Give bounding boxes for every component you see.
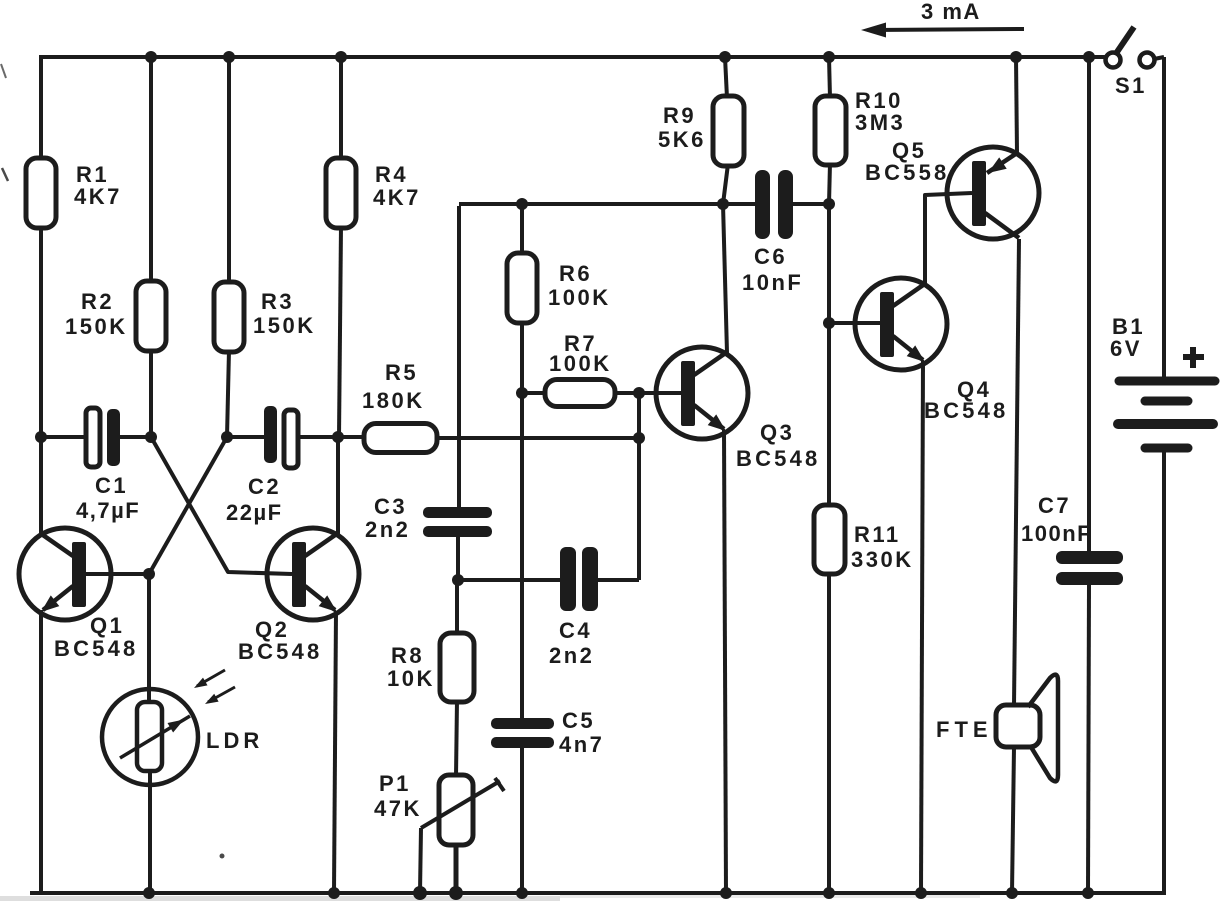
node junction top rail / R3 [223, 51, 235, 63]
svg-text:C4: C4 [559, 618, 592, 643]
svg-text:10K: 10K [387, 666, 435, 691]
wire R11 bottom lead [827, 572, 831, 893]
wire speaker to ground [1012, 747, 1014, 893]
svg-text:Q1: Q1 [90, 613, 124, 638]
svg-text:4n7: 4n7 [559, 732, 604, 757]
node junction top rail / Q5 emitter [1010, 51, 1022, 63]
transistor Q1 BC548 [19, 528, 111, 620]
wire left rail upper segment [39, 55, 43, 160]
svg-text:47K: 47K [374, 796, 422, 821]
node junction P1 wiper / ground [413, 886, 427, 900]
svg-text:2n2: 2n2 [365, 517, 410, 542]
svg-text:R2: R2 [81, 289, 114, 314]
wire C3 node to C4 [458, 578, 561, 582]
wire R7 right lead [614, 391, 639, 395]
resistor R3 [214, 282, 244, 352]
resistor R9 [713, 96, 744, 166]
node junction R7 / Q3 base [633, 387, 645, 399]
wire R8 top lead [455, 580, 459, 635]
svg-text:C1: C1 [95, 473, 128, 498]
svg-text:R3: R3 [261, 289, 294, 314]
resistor R11 [814, 505, 845, 574]
wire R9 top lead [725, 57, 727, 98]
LDR light arrow 1 [194, 670, 225, 688]
transistor Q3 BC548 [656, 347, 748, 439]
node junction Q4 emitter / ground rail [915, 887, 927, 899]
node junction top rail / R4 [335, 51, 347, 63]
wire left rail R1 to node [39, 226, 43, 437]
node junction Q2 emitter / ground rail [328, 887, 340, 899]
node junction top rail / R10 [823, 51, 835, 63]
svg-text:FTE: FTE [936, 717, 993, 742]
wire LDR top lead [147, 574, 151, 705]
potentiometer P1 [421, 775, 504, 845]
wire Q4 emitter to ground [921, 361, 923, 893]
wire C7 top lead [1087, 57, 1091, 552]
svg-text:C5: C5 [562, 708, 595, 733]
wire Q4 base [829, 321, 880, 325]
resistor R5 [364, 424, 437, 453]
svg-text:6V: 6V [1110, 336, 1142, 361]
capacitor C5 [491, 718, 554, 893]
speaker FTE [996, 675, 1058, 782]
wire Q4 collector to Q5 base [925, 193, 972, 284]
resistor R8 [440, 633, 474, 702]
current arrow 3mA [861, 23, 1024, 38]
svg-text:4K7: 4K7 [373, 185, 421, 210]
wire Q1 base [86, 572, 149, 576]
node junction top rail / C7 [1083, 51, 1095, 63]
svg-text:330K: 330K [851, 547, 914, 572]
wire R9 node to Q3 collector [723, 204, 727, 353]
svg-text:100K: 100K [549, 351, 612, 376]
wire Q3 emitter to ground [724, 430, 726, 893]
node junction Q3 emitter / ground rail [720, 887, 732, 899]
node junction C1 / R2 / Q2 base [145, 431, 157, 443]
wire Q1 collector to left rail [39, 437, 43, 535]
node junction left rail / C1 [35, 431, 47, 443]
wire cross-coupling C2 node to Q1 base node [149, 437, 227, 574]
svg-text:Q3: Q3 [760, 420, 794, 445]
node junction C7 / ground rail [1082, 887, 1094, 899]
node junction speaker / ground rail [1006, 887, 1018, 899]
svg-text:150K: 150K [253, 313, 316, 338]
svg-text:100nF: 100nF [1021, 521, 1092, 546]
wire R5 right lead [437, 436, 639, 440]
svg-text:LDR: LDR [206, 728, 263, 753]
wire P1 wiper to ground [420, 828, 421, 893]
svg-text:S1: S1 [1115, 73, 1147, 98]
wire R10 top lead [829, 57, 830, 98]
wire R11 top lead [827, 323, 831, 507]
wire R6 top lead [520, 204, 524, 255]
svg-text:R11: R11 [854, 522, 901, 547]
node junction top rail / R2 [145, 51, 157, 63]
wire Q3 base [639, 391, 682, 395]
svg-text:22µF: 22µF [226, 500, 283, 525]
LDR [102, 689, 198, 785]
resistor R10 [815, 96, 846, 165]
wire battery to ground rail [1162, 452, 1166, 895]
wire C4 to Q3 base node [637, 438, 641, 580]
wire bottom ground rail [30, 891, 1164, 895]
svg-text:4K7: 4K7 [74, 184, 122, 209]
svg-text:BC548: BC548 [924, 398, 1008, 423]
svg-text:C7: C7 [1038, 493, 1071, 518]
wire Q2 collector [336, 437, 340, 535]
wire R2 bottom lead [149, 349, 153, 437]
wire R10 node to Q4 base node [827, 204, 831, 323]
wire C3 top feed from R6 row [457, 206, 461, 508]
capacitor C7 [1056, 551, 1123, 893]
wire Q1 emitter to ground [39, 610, 43, 895]
svg-text:BC548: BC548 [238, 639, 322, 664]
svg-text:C3: C3 [374, 494, 407, 519]
resistor R2 [136, 281, 166, 351]
wire R5 left lead [338, 435, 365, 439]
wire R4 bottom lead [339, 226, 341, 437]
capacitor C3 [423, 507, 492, 580]
svg-text:R8: R8 [391, 643, 424, 668]
wire switch to battery [1162, 57, 1166, 378]
node junction Q1 base / LDR [143, 568, 155, 580]
svg-text:P1: P1 [379, 771, 411, 796]
svg-text:BC548: BC548 [736, 446, 820, 471]
wire R6 bottom lead [520, 321, 524, 393]
svg-text:2n2: 2n2 [549, 643, 594, 668]
wire cross-coupling C1 node to Q2 base [151, 437, 292, 574]
svg-text:BC558: BC558 [865, 160, 949, 185]
resistor R4 [326, 158, 356, 228]
node junction R4 / C2 / Q2 collector / R5 [332, 431, 344, 443]
svg-text:180K: 180K [362, 388, 425, 413]
wire Q5 emitter to top rail [1016, 57, 1017, 153]
svg-text:R6: R6 [559, 261, 592, 286]
node junction P1 / ground rail [449, 886, 463, 900]
transistor Q5 BC558 [947, 147, 1039, 239]
capacitor C1 [41, 408, 151, 467]
node junction C2 / R3 / Q1 base [221, 431, 233, 443]
wire top positive rail [41, 55, 1105, 59]
node junction LDR / ground rail [143, 887, 155, 899]
node junction top rail / R9 [719, 51, 731, 63]
svg-text:C2: C2 [248, 474, 281, 499]
wire R3 top lead [227, 57, 231, 284]
resistor R6 [507, 253, 537, 323]
svg-text:100K: 100K [548, 285, 611, 310]
resistor R7 [545, 380, 615, 407]
wire R3 bottom lead [227, 350, 229, 437]
node junction R10 / C6 right [823, 198, 835, 210]
capacitor C4 [560, 547, 639, 611]
svg-text:150K: 150K [65, 314, 128, 339]
wire R6/C6 row [459, 202, 723, 206]
node junction C3 / R8 / C4 row [452, 574, 464, 586]
wire R9 bottom lead [723, 164, 728, 204]
node junction R6 top / C6 row [516, 198, 528, 210]
svg-text:5K6: 5K6 [658, 127, 706, 152]
svg-text:3M3: 3M3 [855, 110, 905, 135]
node junction R5 / C4 / Q3 base branch [633, 432, 645, 444]
wire Q3 base node vertical [637, 393, 641, 438]
node junction R11 / ground rail [823, 887, 835, 899]
svg-text:BC548: BC548 [54, 636, 138, 661]
wire R10 bottom lead [829, 163, 830, 204]
node junction C5 / ground rail [516, 887, 528, 899]
switch S1 [1106, 27, 1165, 68]
svg-text:4,7µF: 4,7µF [76, 498, 140, 523]
wire P1 bottom lead [454, 843, 459, 893]
svg-text:R9: R9 [663, 103, 696, 128]
svg-text:C6: C6 [754, 244, 787, 269]
wire LDR bottom lead [148, 771, 152, 893]
battery plus sign [1183, 347, 1204, 368]
wire Q2 emitter to ground [334, 611, 336, 893]
wire R4 top lead [339, 57, 343, 160]
svg-text:10nF: 10nF [742, 270, 803, 295]
node junction R6 / R7 [516, 387, 528, 399]
resistor R1 [26, 158, 56, 228]
svg-text:3 mA: 3 mA [921, 0, 981, 24]
wire R6 node down to C5 [520, 393, 524, 719]
transistor Q4 BC548 [855, 278, 947, 370]
battery B1 [1118, 381, 1215, 448]
capacitor C6 [723, 170, 829, 239]
node junction Q4 base / R11 [823, 317, 835, 329]
node junction R9 / C6 left [717, 198, 729, 210]
svg-text:R5: R5 [385, 360, 418, 385]
wire R7 left lead [522, 391, 546, 395]
svg-text:R4: R4 [375, 162, 408, 187]
wire Q5 collector to speaker [1014, 239, 1019, 706]
LDR light arrow 2 [205, 687, 235, 704]
transistor Q2 BC548 [267, 528, 359, 620]
wire R8 to P1 [456, 700, 457, 777]
capacitor C2 [227, 406, 338, 468]
wire R2 top lead [149, 57, 153, 283]
